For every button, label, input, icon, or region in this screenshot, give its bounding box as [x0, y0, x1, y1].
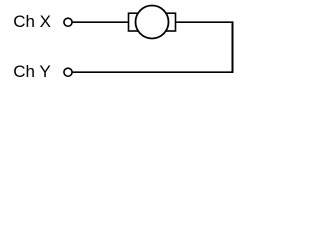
- svg-text:Ch Y: Ch Y: [13, 62, 51, 81]
- svg-text:Ch X: Ch X: [13, 12, 51, 31]
